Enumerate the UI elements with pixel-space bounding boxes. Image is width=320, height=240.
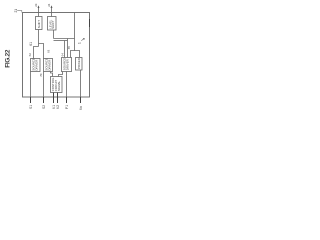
svg-text:21: 21: [14, 9, 18, 13]
leader line for 21: [17, 11, 22, 13]
wire top edge to U6: [75, 13, 80, 58]
wire U2 to top edge: [51, 7, 53, 17]
bottom lead S5: [66, 97, 68, 103]
wire U6 to bottom lead: [80, 70, 82, 97]
svg-text:DRIVER: DRIVER: [34, 60, 38, 71]
svg-text:24: 24: [47, 3, 51, 7]
bottom lead S1: [30, 97, 32, 103]
block U7 (bottom-middle): [51, 77, 63, 93]
svg-text:SHIFT: SHIFT: [37, 20, 41, 29]
wire U4 to bottom lead: [43, 72, 45, 98]
bus wire upper: [54, 38, 75, 40]
wire U4 to U7: [51, 72, 53, 77]
svg-text:64: 64: [61, 53, 65, 57]
svg-text:FIG.22: FIG.22: [4, 49, 11, 68]
wire U2 down: [53, 30, 55, 39]
wire branch to U4: [39, 44, 44, 59]
svg-text:Vo: Vo: [79, 106, 83, 110]
outer block boundary: [23, 13, 90, 98]
wire segment along right edge: [89, 19, 91, 27]
wire U1 down: [38, 30, 40, 47]
svg-text:SHIFT: SHIFT: [51, 20, 55, 29]
bottom lead S2: [43, 97, 45, 103]
svg-text:61: 61: [29, 42, 33, 46]
svg-text:DRIVER: DRIVER: [66, 59, 70, 70]
arrow out top A: [38, 5, 40, 8]
wire bus to U5 b: [67, 39, 69, 58]
block U2 (top tall, two text lines): [48, 17, 57, 31]
arrow out top B: [51, 5, 53, 8]
block U3 (mid-left): [31, 59, 41, 72]
wire U3 to bottom lead: [30, 72, 32, 98]
wire branch to U5 top: [71, 51, 75, 58]
svg-text:65: 65: [67, 46, 71, 50]
bus wire lower: [54, 40, 68, 42]
svg-text:P1: P1: [65, 105, 69, 109]
wire bus to U5 a: [64, 41, 66, 58]
wire U5 to bottom lead: [66, 72, 68, 98]
bottom lead S3: [53, 93, 55, 104]
bottom lead S4: [57, 93, 59, 104]
svg-text:23: 23: [34, 3, 38, 7]
svg-text:S2: S2: [42, 105, 46, 109]
leader arrow NE: [81, 38, 84, 40]
wire U5 to U7: [59, 72, 63, 77]
svg-text:70: 70: [39, 73, 43, 77]
bottom lead S6: [80, 97, 82, 103]
wire U1 to top edge: [38, 7, 40, 17]
svg-text:62: 62: [28, 53, 32, 57]
svg-text:63: 63: [47, 49, 51, 53]
block U6 (right narrow): [76, 58, 83, 71]
svg-text:DRIVER: DRIVER: [47, 60, 51, 71]
svg-text:1: 1: [77, 42, 81, 44]
block U1 (top-left tall): [36, 17, 43, 30]
wire branch to U3: [34, 47, 39, 59]
block U5 (mid-right): [62, 58, 72, 72]
svg-text:S1: S1: [29, 105, 33, 109]
svg-text:POWER: POWER: [77, 58, 81, 69]
block U4 (mid-centre): [44, 59, 53, 72]
svg-text:V2: V2: [56, 105, 60, 109]
svg-text:SIGNAL: SIGNAL: [57, 80, 61, 91]
